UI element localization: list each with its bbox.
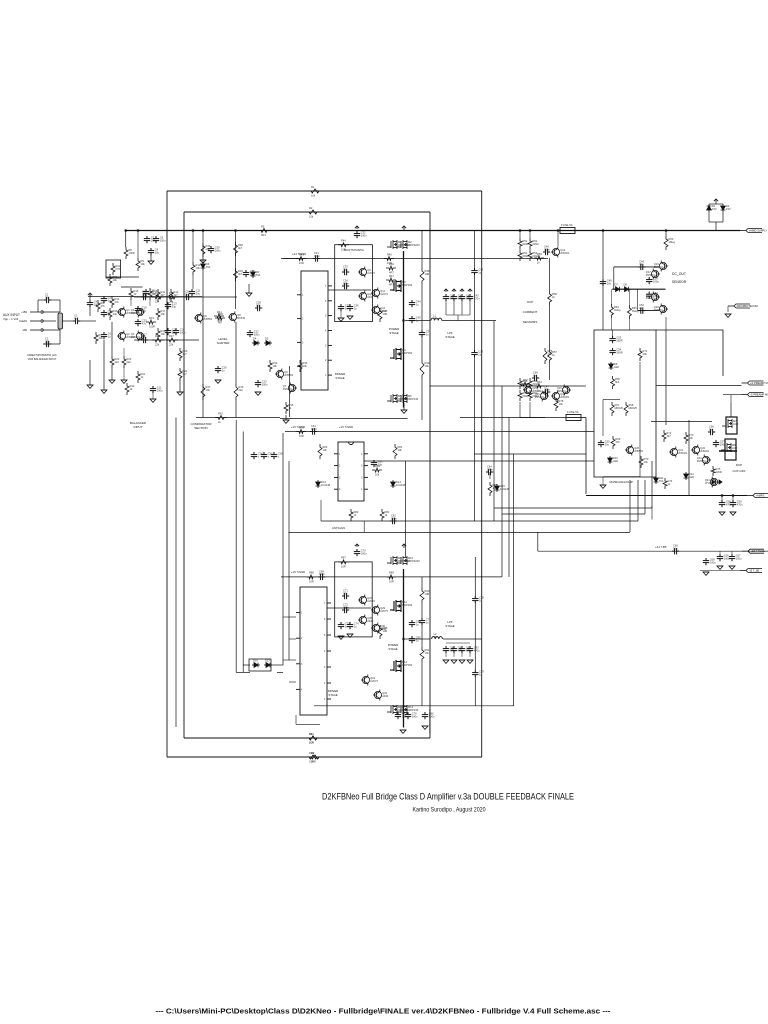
svg-text:SENSORS: SENSORS bbox=[523, 320, 538, 324]
wire bbox=[243, 664, 250, 666]
svg-text:C2073: C2073 bbox=[380, 292, 388, 296]
wire bbox=[474, 677, 476, 706]
svg-text:1Meg: 1Meg bbox=[669, 240, 676, 244]
resistor R80 bbox=[318, 444, 328, 459]
resistor R38 bbox=[234, 242, 244, 256]
svg-text:-15R: -15R bbox=[22, 329, 27, 332]
mosfet M7 bbox=[722, 419, 739, 428]
junction bbox=[529, 229, 531, 231]
diode D16 bbox=[252, 659, 260, 668]
wire fan2 riser bbox=[644, 480, 646, 514]
resistor R27 bbox=[166, 334, 178, 347]
node -S PREAMP MIN bbox=[742, 393, 764, 397]
resistor R78 bbox=[554, 398, 564, 411]
svg-text:10k: 10k bbox=[311, 194, 316, 198]
wire +supply bus bbox=[126, 230, 740, 232]
junction bbox=[557, 229, 559, 231]
wire frame2 bottom bbox=[184, 737, 430, 739]
wire bbox=[628, 319, 630, 330]
resistor R85 bbox=[488, 482, 498, 496]
resistor R82 bbox=[349, 509, 359, 521]
capacitor C81 bbox=[451, 646, 464, 654]
wire ic2 bottom bbox=[296, 723, 320, 725]
capacitor C71 bbox=[342, 589, 349, 600]
capacitor C25 bbox=[261, 452, 273, 460]
wire bbox=[529, 402, 531, 418]
wire bbox=[51, 299, 60, 301]
capacitor C35 bbox=[338, 304, 350, 312]
resistor R14 bbox=[110, 296, 120, 308]
net flag bbox=[402, 544, 406, 548]
svg-text:10k: 10k bbox=[309, 215, 314, 219]
wire amps rail bbox=[586, 495, 747, 497]
svg-text:10k: 10k bbox=[141, 262, 146, 266]
wire bbox=[111, 368, 113, 380]
wire dcp v2 bbox=[688, 420, 690, 496]
svg-text:10k: 10k bbox=[559, 402, 564, 406]
resistor R61 bbox=[528, 390, 539, 401]
diode D7 bbox=[614, 283, 622, 292]
wire comp top rail bbox=[285, 431, 594, 433]
mosfet M4 bbox=[390, 348, 413, 360]
capacitor C12 bbox=[101, 310, 113, 318]
svg-text:100n: 100n bbox=[487, 467, 493, 471]
wire bbox=[421, 603, 423, 618]
svg-text:STAGE: STAGE bbox=[445, 624, 454, 628]
wire chain2 bbox=[639, 362, 641, 477]
op-amp U2 (LM319) bbox=[334, 442, 368, 501]
capacitor C29 bbox=[215, 366, 227, 374]
svg-text:5V1: 5V1 bbox=[206, 265, 211, 269]
svg-text:A940: A940 bbox=[367, 619, 374, 623]
svg-text:C2073: C2073 bbox=[370, 679, 378, 683]
capacitor C63 bbox=[371, 460, 383, 468]
transistor Q26 bbox=[535, 391, 549, 402]
capacitor C2 bbox=[44, 337, 51, 348]
svg-text:22k: 22k bbox=[169, 300, 174, 304]
mosfet M1 bbox=[387, 240, 410, 249]
wire bbox=[248, 284, 250, 293]
svg-text:R50: R50 bbox=[389, 262, 394, 266]
transistor Q24 bbox=[705, 477, 719, 488]
svg-text:R79: R79 bbox=[299, 425, 304, 429]
capacitor C11 bbox=[189, 289, 201, 297]
diode D14 bbox=[391, 480, 406, 488]
wire dcout mid rail bbox=[612, 288, 665, 290]
wire bbox=[612, 330, 614, 336]
svg-text:+15R: +15R bbox=[21, 311, 27, 314]
mosfet M10 bbox=[397, 556, 420, 565]
svg-text:33u: 33u bbox=[433, 316, 438, 320]
transistor Q1 bbox=[117, 307, 136, 318]
wire bbox=[549, 363, 551, 380]
capacitor C31 bbox=[313, 251, 320, 262]
resistor R29 bbox=[108, 274, 118, 286]
net flag bbox=[452, 289, 456, 292]
resistor R66 bbox=[611, 376, 621, 389]
capacitor C14 bbox=[165, 328, 177, 336]
wire bbox=[179, 381, 181, 392]
svg-text:DIRECT/POTENTIO (L0): DIRECT/POTENTIO (L0) bbox=[28, 353, 57, 357]
svg-text:560R: 560R bbox=[616, 350, 622, 354]
wire bbox=[38, 299, 44, 301]
mosfet M5 bbox=[387, 394, 409, 403]
svg-text:R42: R42 bbox=[218, 411, 223, 415]
ground bbox=[338, 636, 344, 639]
wire bbox=[611, 318, 613, 330]
resistor R60 bbox=[518, 390, 529, 401]
wire bbox=[111, 322, 113, 356]
svg-text:FUSE 5A: FUSE 5A bbox=[561, 223, 573, 227]
wire -15 bbox=[700, 570, 740, 572]
wire vfeed3 bbox=[513, 454, 515, 706]
capacitor C66 bbox=[717, 554, 730, 562]
wire bbox=[519, 249, 521, 250]
capacitor C61 bbox=[310, 424, 317, 435]
diode D2 bbox=[721, 204, 731, 212]
svg-text:10R: 10R bbox=[389, 580, 394, 584]
svg-text:CUT-OFF: CUT-OFF bbox=[733, 469, 746, 473]
svg-text:100u: 100u bbox=[653, 279, 659, 283]
svg-text:STAGE: STAGE bbox=[389, 331, 398, 335]
svg-text:1Meg: 1Meg bbox=[632, 309, 639, 313]
capacitor C69 bbox=[318, 569, 325, 580]
wire bbox=[235, 322, 237, 384]
resistor R88 bbox=[378, 625, 388, 639]
svg-text:10u: 10u bbox=[343, 591, 348, 595]
svg-text:FUSE 5A: FUSE 5A bbox=[567, 410, 579, 414]
svg-text:100n: 100n bbox=[429, 714, 435, 718]
wire bbox=[43, 343, 60, 345]
capacitor C9 bbox=[148, 248, 160, 256]
wire bbox=[123, 368, 125, 380]
capacitor C76 bbox=[405, 712, 418, 720]
svg-text:R89: R89 bbox=[389, 571, 394, 575]
net flag bbox=[402, 226, 406, 230]
svg-text:2N5551: 2N5551 bbox=[634, 449, 644, 453]
resistor R70 bbox=[639, 456, 649, 468]
svg-text:10u: 10u bbox=[607, 281, 612, 285]
svg-text:STAGE: STAGE bbox=[328, 693, 337, 697]
wire bbox=[59, 329, 61, 344]
dcp fet box 2 bbox=[725, 439, 736, 460]
wire bbox=[89, 295, 91, 300]
junction bbox=[125, 229, 127, 231]
svg-text:22k: 22k bbox=[99, 336, 104, 340]
op-amp U3 (IR2110) bbox=[296, 587, 331, 715]
wire dcout left bbox=[613, 267, 615, 289]
wire fuse2 line bbox=[460, 417, 566, 419]
wire bbox=[236, 671, 250, 673]
svg-text:22k: 22k bbox=[155, 343, 160, 347]
mosfet M14 bbox=[397, 705, 419, 714]
svg-text:ON/SIGNAL/CLIP: ON/SIGNAL/CLIP bbox=[609, 480, 633, 484]
svg-text:R1: R1 bbox=[311, 185, 315, 189]
wire preamp1 bbox=[656, 385, 742, 387]
wire bbox=[461, 301, 463, 315]
capacitor C48 bbox=[600, 279, 612, 287]
resistor R40 bbox=[234, 384, 244, 400]
svg-text:100n: 100n bbox=[311, 427, 317, 431]
resistor R91 bbox=[420, 647, 430, 662]
resistor R7 bbox=[94, 332, 103, 344]
resistor R11 bbox=[156, 289, 166, 302]
mosfet M3 bbox=[390, 280, 413, 292]
transistor Q10 bbox=[358, 291, 374, 302]
wire bbox=[445, 301, 447, 315]
transistor Q6 bbox=[275, 369, 294, 380]
resistor R25 bbox=[166, 291, 178, 304]
svg-text:100n: 100n bbox=[544, 247, 550, 251]
wire mid gnd rail bbox=[280, 418, 408, 420]
resistor R49 bbox=[420, 360, 430, 378]
diode D10 bbox=[608, 456, 619, 464]
svg-text:100n: 100n bbox=[720, 442, 726, 446]
wire bbox=[283, 258, 301, 260]
wire ic3 drop bbox=[320, 500, 322, 521]
svg-text:10R: 10R bbox=[383, 629, 388, 633]
relay box bbox=[106, 260, 121, 278]
wire bbox=[89, 360, 91, 385]
svg-text:+AMID SUPPLY: +AMID SUPPLY bbox=[749, 229, 768, 233]
resistor R43 bbox=[296, 252, 306, 265]
diode D6 bbox=[201, 262, 212, 270]
wire bbox=[731, 551, 733, 554]
wire bbox=[529, 249, 531, 250]
wire bbox=[549, 258, 551, 291]
resistor R87 bbox=[338, 556, 349, 569]
node +S PREAMP MIN bbox=[742, 381, 764, 385]
wire bbox=[474, 231, 476, 269]
capacitor C72 bbox=[342, 603, 349, 614]
resistor R3 bbox=[308, 751, 322, 764]
svg-text:STAGE: STAGE bbox=[445, 335, 454, 339]
svg-text:4k7: 4k7 bbox=[183, 352, 188, 356]
wire bbox=[665, 317, 667, 330]
inductor L2 bbox=[432, 632, 443, 639]
wire lvl rail bbox=[235, 231, 237, 310]
capacitor C15 bbox=[141, 290, 148, 301]
capacitor C64 bbox=[486, 465, 493, 476]
junction bbox=[192, 229, 194, 231]
node +15 T FUSE bbox=[742, 549, 764, 553]
wire bbox=[295, 715, 297, 724]
wire bbox=[89, 307, 91, 316]
capacitor C51 bbox=[646, 291, 659, 299]
svg-text:R55: R55 bbox=[537, 252, 542, 256]
svg-text:R27: R27 bbox=[169, 334, 174, 338]
wire bbox=[445, 653, 447, 657]
resistor R77 bbox=[520, 378, 530, 391]
mosfet M2 bbox=[397, 240, 420, 249]
wire frame1 right bbox=[481, 191, 483, 757]
wire caps top bbox=[144, 230, 160, 232]
svg-text:10u: 10u bbox=[45, 295, 50, 299]
wire comp out bbox=[364, 460, 594, 462]
wire preamp2 bbox=[723, 394, 742, 396]
resistor R36 bbox=[201, 243, 211, 257]
svg-text:BOOTSTRAPIA: BOOTSTRAPIA bbox=[344, 248, 364, 252]
protection box top bbox=[656, 330, 723, 376]
wire bbox=[103, 340, 105, 390]
wire to L2 bbox=[405, 638, 430, 640]
wire chain1 bbox=[134, 296, 237, 298]
ground bbox=[177, 392, 183, 395]
svg-text:2N5551: 2N5551 bbox=[203, 317, 213, 321]
ground bbox=[347, 316, 353, 319]
mosfet M9 bbox=[387, 556, 410, 565]
svg-text:560R: 560R bbox=[616, 338, 622, 342]
resistor R42 bbox=[215, 411, 227, 424]
resistor R58 bbox=[518, 378, 529, 389]
svg-text:2N5401: 2N5401 bbox=[535, 395, 545, 399]
svg-text:100n: 100n bbox=[544, 387, 550, 391]
svg-text:SHIFTER: SHIFTER bbox=[217, 341, 231, 345]
capacitor C4 bbox=[87, 300, 100, 308]
wire fan4 riser bbox=[629, 480, 631, 532]
svg-text:10u: 10u bbox=[673, 547, 678, 551]
svg-text:IRFP9240: IRFP9240 bbox=[408, 559, 420, 563]
resistor R84 bbox=[372, 464, 382, 477]
wire bbox=[43, 329, 60, 331]
capacitor C40 bbox=[443, 294, 456, 302]
capacitor C33 bbox=[342, 265, 349, 276]
svg-text:10k: 10k bbox=[113, 312, 118, 316]
ground bbox=[255, 392, 261, 395]
svg-text:22p: 22p bbox=[172, 304, 177, 308]
potentiometer P1 bbox=[58, 313, 63, 329]
capacitor C20 bbox=[135, 319, 147, 327]
wire fan1 bbox=[494, 507, 652, 509]
transistor Q25 bbox=[523, 385, 542, 396]
resistor R18 bbox=[156, 328, 166, 340]
capacitor C68 bbox=[703, 558, 716, 566]
svg-text:R86: R86 bbox=[309, 571, 314, 575]
resistor R89 bbox=[386, 571, 396, 584]
resistor R81 bbox=[393, 444, 403, 459]
wire bbox=[285, 415, 287, 420]
svg-text:5V1: 5V1 bbox=[659, 479, 664, 483]
node +AMPS bbox=[747, 494, 768, 498]
capacitor C38 bbox=[471, 268, 483, 276]
resistor R24 bbox=[152, 291, 164, 304]
fuse F1 bbox=[560, 228, 575, 234]
wire dcout low rail bbox=[638, 310, 659, 312]
svg-text:A940: A940 bbox=[382, 694, 389, 698]
wire to L1 bbox=[405, 320, 430, 322]
capacitor C60 bbox=[532, 371, 539, 382]
svg-text:10R: 10R bbox=[309, 741, 314, 745]
junction bbox=[202, 229, 204, 231]
svg-text:10u: 10u bbox=[142, 292, 147, 296]
wire fan1 riser bbox=[651, 461, 653, 508]
wire frame1 bottom bbox=[167, 756, 482, 758]
bootstrap box bbox=[335, 245, 373, 322]
svg-text:IRFP9240: IRFP9240 bbox=[408, 243, 420, 247]
wire bbox=[130, 300, 132, 306]
svg-text:BC546: BC546 bbox=[237, 316, 245, 320]
svg-text:Kartino Surodipo , August 2020: Kartino Surodipo , August 2020 bbox=[413, 807, 486, 814]
resistor R73 bbox=[684, 432, 694, 444]
wire dcp top rail bbox=[651, 421, 712, 423]
svg-text:4k7: 4k7 bbox=[667, 434, 672, 438]
svg-text:2N5401: 2N5401 bbox=[557, 389, 567, 393]
resistor R67 bbox=[610, 402, 623, 416]
svg-text:D7: D7 bbox=[615, 283, 619, 287]
resistor R28 bbox=[215, 312, 225, 325]
svg-text:10u: 10u bbox=[343, 267, 348, 271]
capacitor C36 bbox=[347, 304, 359, 312]
capacitor C52 bbox=[638, 303, 645, 314]
ground bbox=[109, 380, 115, 383]
diode D9 bbox=[609, 362, 620, 370]
svg-text:10R: 10R bbox=[425, 272, 430, 276]
wire bbox=[721, 496, 723, 501]
wire bbox=[628, 289, 630, 305]
svg-text:100n: 100n bbox=[361, 551, 367, 555]
capacitor C28 bbox=[255, 301, 262, 312]
svg-text:ARC/PROTECOM: ARC/PROTECOM bbox=[737, 304, 758, 308]
net flag bbox=[468, 289, 472, 292]
capacitor C67 bbox=[729, 554, 742, 562]
capacitor C43 bbox=[467, 294, 480, 302]
capacitor C41 bbox=[451, 294, 464, 302]
svg-text:INPUT: INPUT bbox=[134, 425, 143, 429]
net flag bbox=[355, 544, 359, 547]
ground bbox=[101, 390, 107, 393]
svg-text:R41: R41 bbox=[217, 310, 222, 314]
svg-text:Vpp ~ 1 Volt: Vpp ~ 1 Volt bbox=[3, 317, 18, 321]
resistor R86 bbox=[306, 571, 316, 584]
wire dcout rail bbox=[602, 231, 604, 331]
svg-text:15V: 15V bbox=[712, 207, 717, 211]
junction bbox=[665, 229, 667, 231]
svg-text:R43: R43 bbox=[299, 252, 304, 256]
junction bbox=[234, 229, 236, 231]
wire bbox=[37, 300, 39, 312]
svg-text:IRFP250: IRFP250 bbox=[402, 351, 413, 355]
wire bbox=[43, 320, 56, 322]
resistor R75 bbox=[711, 466, 722, 476]
svg-text:47k: 47k bbox=[101, 304, 106, 308]
wire bbox=[665, 231, 667, 237]
svg-text:+15 T/GND: +15 T/GND bbox=[291, 570, 305, 574]
svg-text:+15 T FUSE: +15 T FUSE bbox=[751, 549, 766, 553]
svg-text:10k: 10k bbox=[323, 448, 328, 452]
inductor L1 bbox=[431, 314, 442, 321]
wire frame2 top bbox=[184, 211, 430, 213]
transistor Q27 bbox=[358, 595, 375, 606]
wire lpf tie bbox=[446, 314, 470, 316]
diode D8 bbox=[623, 283, 631, 292]
svg-text:STAGE: STAGE bbox=[335, 376, 344, 380]
wire bottom bus1b bbox=[184, 737, 430, 739]
svg-text:10R: 10R bbox=[309, 580, 314, 584]
capacitor C82 bbox=[459, 646, 472, 654]
mosfet M8 bbox=[721, 443, 738, 452]
wire bbox=[421, 284, 423, 330]
capacitor C57 bbox=[713, 440, 726, 448]
svg-text:100n: 100n bbox=[160, 238, 166, 242]
wire bbox=[289, 638, 296, 640]
svg-text:LED: LED bbox=[689, 475, 694, 479]
net flag bbox=[714, 199, 718, 202]
resistor R2 bbox=[306, 206, 320, 219]
wire bbox=[137, 231, 139, 259]
capacitor C73 bbox=[338, 622, 350, 630]
wire comp rail bbox=[202, 231, 204, 418]
resistor R35 bbox=[284, 402, 294, 414]
